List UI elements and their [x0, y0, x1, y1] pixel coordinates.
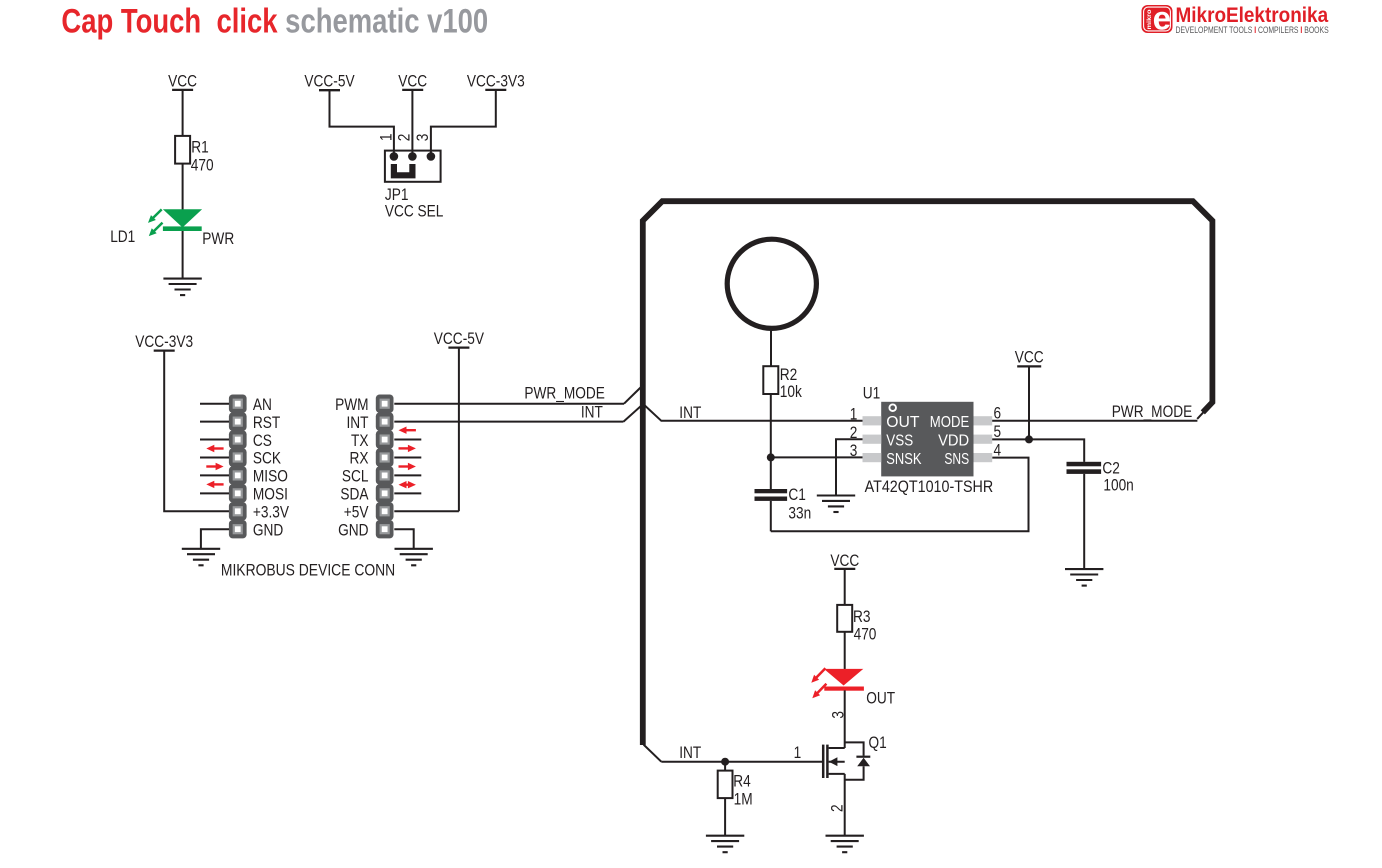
svg-text:3: 3: [828, 711, 847, 719]
svg-text:VCC: VCC: [1015, 347, 1044, 366]
svg-text:VCC-3V3: VCC-3V3: [467, 72, 525, 91]
svg-text:OUT: OUT: [886, 414, 920, 431]
svg-text:SDA: SDA: [340, 485, 369, 504]
svg-text:PWR_MODE: PWR_MODE: [524, 383, 605, 402]
svg-text:Cap Touch click schematic v10: Cap Touch click schematic v100: [61, 3, 488, 41]
svg-text:470: 470: [854, 624, 877, 643]
svg-text:AT42QT1010-TSHR: AT42QT1010-TSHR: [865, 477, 994, 496]
svg-text:LD1: LD1: [110, 227, 135, 246]
svg-text:+3.3V: +3.3V: [253, 502, 290, 521]
svg-text:470: 470: [191, 155, 214, 174]
svg-text:1: 1: [794, 743, 802, 762]
svg-text:mikro: mikro: [1146, 9, 1153, 29]
svg-text:33n: 33n: [788, 504, 811, 523]
svg-text:5: 5: [994, 422, 1002, 441]
svg-text:1M: 1M: [734, 789, 753, 808]
svg-text:TX: TX: [351, 431, 369, 450]
svg-text:GND: GND: [338, 520, 368, 539]
svg-text:PWR: PWR: [202, 229, 234, 248]
svg-text:SCL: SCL: [342, 467, 369, 486]
svg-text:RST: RST: [253, 413, 280, 432]
svg-text:10k: 10k: [780, 382, 803, 401]
svg-text:RX: RX: [350, 449, 369, 468]
svg-text:VCC-3V3: VCC-3V3: [135, 332, 193, 351]
svg-text:MOSI: MOSI: [253, 485, 288, 504]
svg-text:R4: R4: [733, 771, 751, 790]
svg-text:SCK: SCK: [253, 449, 281, 468]
svg-text:4: 4: [994, 440, 1002, 459]
svg-text:VCC-5V: VCC-5V: [304, 72, 355, 91]
svg-text:2: 2: [828, 804, 847, 812]
svg-text:Q1: Q1: [869, 733, 887, 752]
svg-text:VDD: VDD: [938, 432, 969, 449]
svg-text:VCC: VCC: [830, 551, 859, 570]
svg-text:2: 2: [850, 423, 858, 442]
svg-text:e: e: [1153, 0, 1172, 37]
svg-text:MISO: MISO: [253, 467, 288, 486]
svg-text:1: 1: [376, 133, 395, 141]
svg-text:INT: INT: [679, 403, 701, 422]
svg-text:VCC: VCC: [168, 72, 197, 91]
svg-text:SNS: SNS: [944, 451, 969, 468]
svg-text:INT: INT: [581, 403, 603, 422]
svg-text:INT: INT: [679, 743, 701, 762]
svg-text:MODE: MODE: [930, 414, 969, 431]
svg-text:3: 3: [850, 441, 858, 460]
svg-text:AN: AN: [253, 395, 272, 414]
svg-text:VCC: VCC: [398, 72, 427, 91]
svg-text:VCC-5V: VCC-5V: [434, 329, 485, 348]
svg-text:2: 2: [395, 134, 414, 142]
svg-text:SNSK: SNSK: [886, 451, 922, 468]
svg-text:R3: R3: [853, 607, 871, 626]
svg-text:1: 1: [850, 404, 858, 423]
svg-text:PWM: PWM: [335, 395, 368, 414]
svg-text:INT: INT: [347, 413, 369, 432]
svg-text:MIKROBUS DEVICE CONN: MIKROBUS DEVICE CONN: [221, 560, 395, 579]
svg-text:VCC SEL: VCC SEL: [385, 202, 444, 221]
svg-text:CS: CS: [253, 431, 272, 450]
svg-text:GND: GND: [253, 520, 283, 539]
svg-text:DEVELOPMENT TOOLS I COMPILERS: DEVELOPMENT TOOLS I COMPILERS I BOOKS: [1176, 24, 1329, 35]
svg-text:6: 6: [994, 403, 1002, 422]
svg-text:VSS: VSS: [886, 432, 913, 449]
svg-text:PWR_MODE: PWR_MODE: [1112, 402, 1193, 421]
svg-text:+5V: +5V: [344, 502, 369, 521]
svg-text:C1: C1: [788, 485, 806, 504]
svg-text:3: 3: [413, 134, 432, 142]
svg-text:100n: 100n: [1103, 476, 1133, 495]
svg-text:R1: R1: [191, 137, 209, 156]
svg-text:OUT: OUT: [866, 689, 895, 708]
svg-text:U1: U1: [863, 384, 881, 403]
